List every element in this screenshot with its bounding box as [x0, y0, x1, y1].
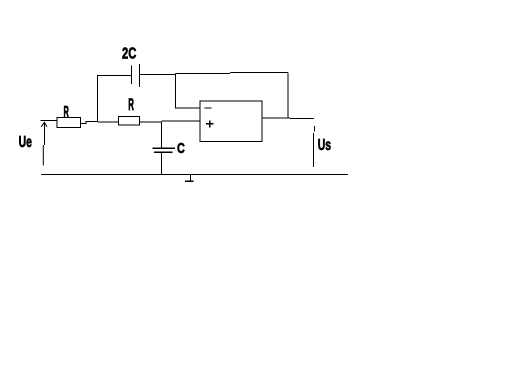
arrow Ue — [41, 122, 47, 165]
wire R2 to op-amp — [139, 121, 200, 122]
wire top mid — [139, 74, 175, 76]
op-amp U1 — [200, 101, 262, 142]
wire input left — [41, 120, 58, 122]
wire output — [262, 117, 314, 120]
svg-text:R: R — [128, 95, 134, 114]
arrow Us — [313, 126, 316, 167]
wire node A to R2 — [98, 121, 119, 123]
wire top right — [176, 73, 288, 74]
svg-text:Ue: Ue — [19, 133, 33, 151]
wire ground rail — [41, 174, 348, 176]
capacitor C — [153, 148, 176, 152]
wire node A vertical — [97, 75, 99, 121]
wire R1 right stub — [80, 121, 97, 123]
pin minus label — [204, 107, 211, 109]
svg-text:Us: Us — [318, 136, 331, 154]
wire top left — [98, 74, 132, 76]
wire node B to C — [160, 122, 162, 148]
capacitor 2C — [132, 64, 140, 87]
svg-text:R: R — [64, 103, 70, 121]
resistor R2 — [118, 117, 139, 126]
wire C to rail — [161, 153, 163, 175]
ground — [185, 175, 194, 182]
svg-text:C: C — [177, 139, 185, 156]
wire feedback vertical — [287, 73, 289, 119]
wire inverting branch — [176, 74, 200, 109]
pin plus label — [206, 120, 213, 127]
resistor R1 — [57, 117, 80, 127]
svg-text:2C: 2C — [122, 43, 136, 62]
